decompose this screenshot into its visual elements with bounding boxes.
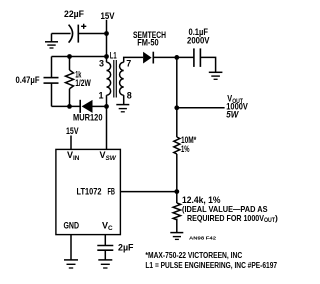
svg-text:VIN: VIN: [67, 150, 80, 162]
svg-text:VSW: VSW: [100, 150, 117, 162]
svg-text:5W: 5W: [226, 109, 239, 119]
svg-text:1: 1: [99, 91, 104, 101]
svg-text:VC: VC: [102, 220, 113, 232]
svg-text:FB: FB: [108, 186, 116, 196]
svg-text:2µF: 2µF: [118, 242, 134, 252]
svg-text:FM-50: FM-50: [137, 38, 159, 48]
svg-text:8: 8: [127, 91, 132, 101]
svg-text:0.47µF: 0.47µF: [16, 75, 40, 85]
svg-text:AN98 F42: AN98 F42: [189, 235, 217, 240]
svg-text:15V: 15V: [101, 11, 115, 21]
svg-text:L1: L1: [110, 50, 117, 60]
svg-text:MUR120: MUR120: [73, 112, 103, 122]
svg-text:1%: 1%: [181, 144, 190, 154]
svg-text:L1 = PULSE ENGINEERING, INC #P: L1 = PULSE ENGINEERING, INC #PE-6197: [145, 260, 277, 270]
svg-text:15V: 15V: [66, 126, 79, 136]
svg-text:REQUIRED FOR 1000VOUT): REQUIRED FOR 1000VOUT): [187, 213, 278, 224]
svg-text:*MAX-750-22 VICTOREEN, INC: *MAX-750-22 VICTOREEN, INC: [145, 250, 242, 260]
svg-text:7: 7: [126, 59, 131, 69]
svg-text:LT1072: LT1072: [77, 186, 102, 196]
svg-text:3: 3: [99, 59, 104, 69]
svg-text:GND: GND: [64, 220, 80, 230]
svg-text:1/2W: 1/2W: [75, 78, 91, 88]
svg-text:22µF: 22µF: [64, 9, 84, 19]
svg-text:2000V: 2000V: [187, 35, 210, 45]
